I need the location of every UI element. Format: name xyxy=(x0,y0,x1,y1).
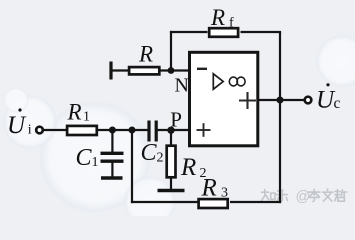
ground bar of R xyxy=(109,62,112,80)
svg-text:R: R xyxy=(201,175,217,202)
svg-text:R: R xyxy=(67,100,82,125)
watermark zhihu text xyxy=(262,189,347,202)
input terminal xyxy=(36,127,43,134)
wire R2 bottom to ground xyxy=(170,179,172,190)
node N xyxy=(168,67,175,74)
svg-text:C: C xyxy=(76,145,93,171)
resistor R1 xyxy=(67,126,97,135)
wire junction to output terminal xyxy=(280,99,304,101)
svg-text:f: f xyxy=(229,16,234,31)
resistor R xyxy=(129,67,159,74)
label R1 xyxy=(67,100,91,125)
op-amp plus input mark xyxy=(197,123,211,137)
svg-text:2: 2 xyxy=(157,151,164,166)
svg-text:R: R xyxy=(180,154,196,181)
output terminal xyxy=(305,97,312,104)
wire Rf rail left xyxy=(170,31,208,33)
wire R1 to C2 xyxy=(98,129,148,131)
label R2 xyxy=(180,154,207,181)
ground bar of R2 xyxy=(158,189,185,192)
op-amp output plus mark xyxy=(239,92,256,109)
ground bar of C1 xyxy=(101,176,123,179)
node P xyxy=(167,127,174,134)
op-amp minus input mark xyxy=(197,68,207,70)
resistor R3 xyxy=(199,199,228,208)
svg-text:U: U xyxy=(7,112,27,139)
wire R to op-amp minus input xyxy=(161,69,190,71)
op-amp infinity symbol xyxy=(229,77,245,86)
wire op-amp output to junction xyxy=(258,99,280,101)
svg-text:C: C xyxy=(141,140,158,166)
svg-text:1: 1 xyxy=(92,155,99,170)
wire Rf rail right xyxy=(241,31,282,33)
output junction node xyxy=(277,97,284,104)
wire node P down to R2 xyxy=(170,130,172,145)
wire input to R1 xyxy=(44,129,67,131)
node A junction after R1 xyxy=(109,127,116,134)
wire bottom rail right of R3 xyxy=(230,201,281,203)
wire node B down to bottom rail xyxy=(131,130,133,203)
wire node A down to C1 xyxy=(111,130,113,152)
svg-text:P: P xyxy=(170,108,182,132)
wire node N up to Rf rail xyxy=(170,31,172,71)
wire C2 to op-amp plus input xyxy=(158,129,190,131)
svg-text:1: 1 xyxy=(83,110,90,125)
op-amp triangle xyxy=(213,74,223,89)
label Rf xyxy=(210,5,234,31)
svg-text:R: R xyxy=(210,5,225,30)
op-amp U1 xyxy=(190,52,258,146)
resistor R2 xyxy=(167,146,176,178)
label Uc xyxy=(316,83,341,113)
capacitor C2 xyxy=(149,121,156,142)
label C2 xyxy=(141,140,164,166)
label R3 xyxy=(201,175,229,202)
wire C1 bottom to ground xyxy=(111,163,113,177)
label Ui xyxy=(7,108,32,139)
node B junction before C2 xyxy=(129,127,136,134)
wire ground to R xyxy=(111,69,128,71)
svg-text:R: R xyxy=(138,42,153,67)
capacitor C1 xyxy=(101,153,124,161)
svg-text:N: N xyxy=(175,75,189,97)
label C1 xyxy=(76,145,99,171)
svg-text:i: i xyxy=(28,123,32,138)
wire bottom rail left of R3 xyxy=(131,201,198,203)
svg-text:@: @ xyxy=(296,189,311,205)
wire output vertical Rf to bottom rail xyxy=(279,32,281,203)
resistor Rf xyxy=(209,28,238,37)
svg-text:c: c xyxy=(334,95,341,112)
svg-text:3: 3 xyxy=(221,186,228,201)
